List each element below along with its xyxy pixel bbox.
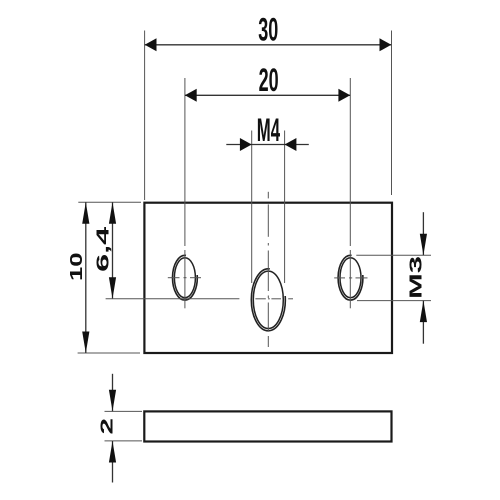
dimension line M3 lower segment bbox=[422, 301, 424, 344]
centerline center hole vertical (dash-dot) bbox=[267, 192, 269, 347]
extension line dim10 top bbox=[78, 201, 141, 203]
dimension line M4 bbox=[226, 144, 308, 146]
extension line M3 top bbox=[356, 254, 431, 256]
dimension line 6,4 bbox=[112, 202, 114, 298]
centerline left hole vertical lower bbox=[184, 250, 186, 308]
extension line dim2 bottom bbox=[105, 440, 143, 442]
svg-text:20: 20 bbox=[259, 62, 279, 98]
svg-text:M4: M4 bbox=[257, 112, 280, 148]
extension line dim30 left bbox=[144, 31, 146, 201]
arrowhead M4 right (outside pointing left) bbox=[285, 138, 297, 151]
extension line dim10 bottom bbox=[78, 352, 140, 354]
arrowhead 10 top bbox=[82, 202, 89, 224]
extension line M4 left bbox=[251, 131, 253, 284]
extension line M3 bottom bbox=[357, 300, 431, 302]
hole H2 center M4 thread outer arc bbox=[251, 269, 285, 331]
dimension line 2 upper segment bbox=[112, 374, 114, 412]
centerline right hole horizontal bbox=[334, 277, 367, 279]
hole H1 left M3 inner circle bbox=[174, 258, 195, 298]
extension line dim30 right bbox=[391, 31, 393, 196]
arrowhead 2 bottom (pointing up) bbox=[109, 441, 116, 463]
plate side view outline bbox=[144, 411, 391, 441]
arrowhead 30 right bbox=[380, 38, 392, 51]
extension line dim2 top bbox=[105, 410, 143, 412]
hole H3 right M3 inner circle bbox=[340, 258, 361, 298]
arrowhead 30 left bbox=[145, 38, 157, 51]
svg-text:6,4: 6,4 bbox=[93, 226, 112, 272]
dimension line 30 bbox=[145, 44, 392, 46]
centerline left hole horizontal bbox=[168, 277, 201, 279]
svg-text:30: 30 bbox=[258, 12, 278, 48]
arrowhead 20 right bbox=[338, 89, 350, 102]
centerline center hole horizontal (dash-dot) bbox=[255, 298, 293, 300]
hole H1 left M3 thread outer arc bbox=[172, 255, 197, 300]
arrowhead 2 top (pointing down) bbox=[109, 390, 116, 412]
svg-text:M3: M3 bbox=[406, 256, 425, 299]
dimension line 10 bbox=[85, 202, 87, 353]
dimension line 2 lower segment bbox=[112, 441, 114, 483]
arrowhead 6,4 top bbox=[109, 202, 116, 224]
svg-text:10: 10 bbox=[67, 253, 86, 282]
arrowhead M3 top (pointing down) bbox=[420, 234, 427, 256]
arrowhead 20 left bbox=[185, 89, 197, 102]
svg-text:2: 2 bbox=[97, 418, 116, 435]
arrowhead 10 bottom bbox=[82, 332, 89, 354]
extension/centerline dim20 right hole bbox=[349, 78, 351, 246]
arrowhead M3 bottom (pointing up) bbox=[420, 301, 427, 323]
arrowhead 6,4 bottom bbox=[109, 277, 116, 299]
centerline right hole vertical lower bbox=[349, 250, 351, 308]
extension line M4 right bbox=[284, 131, 286, 284]
dimension line M3 upper segment bbox=[422, 212, 424, 255]
extension/centerline dim20 left hole bbox=[184, 78, 186, 246]
arrowhead M4 left (outside pointing right) bbox=[240, 138, 252, 151]
plate top view outline bbox=[144, 203, 392, 353]
hole H3 right M3 thread outer arc bbox=[338, 255, 363, 300]
dimension line 20 bbox=[185, 94, 350, 96]
hole H2 center M4 inner circle bbox=[253, 271, 283, 328]
extension line 6,4 bottom (to center hole) bbox=[106, 298, 240, 300]
